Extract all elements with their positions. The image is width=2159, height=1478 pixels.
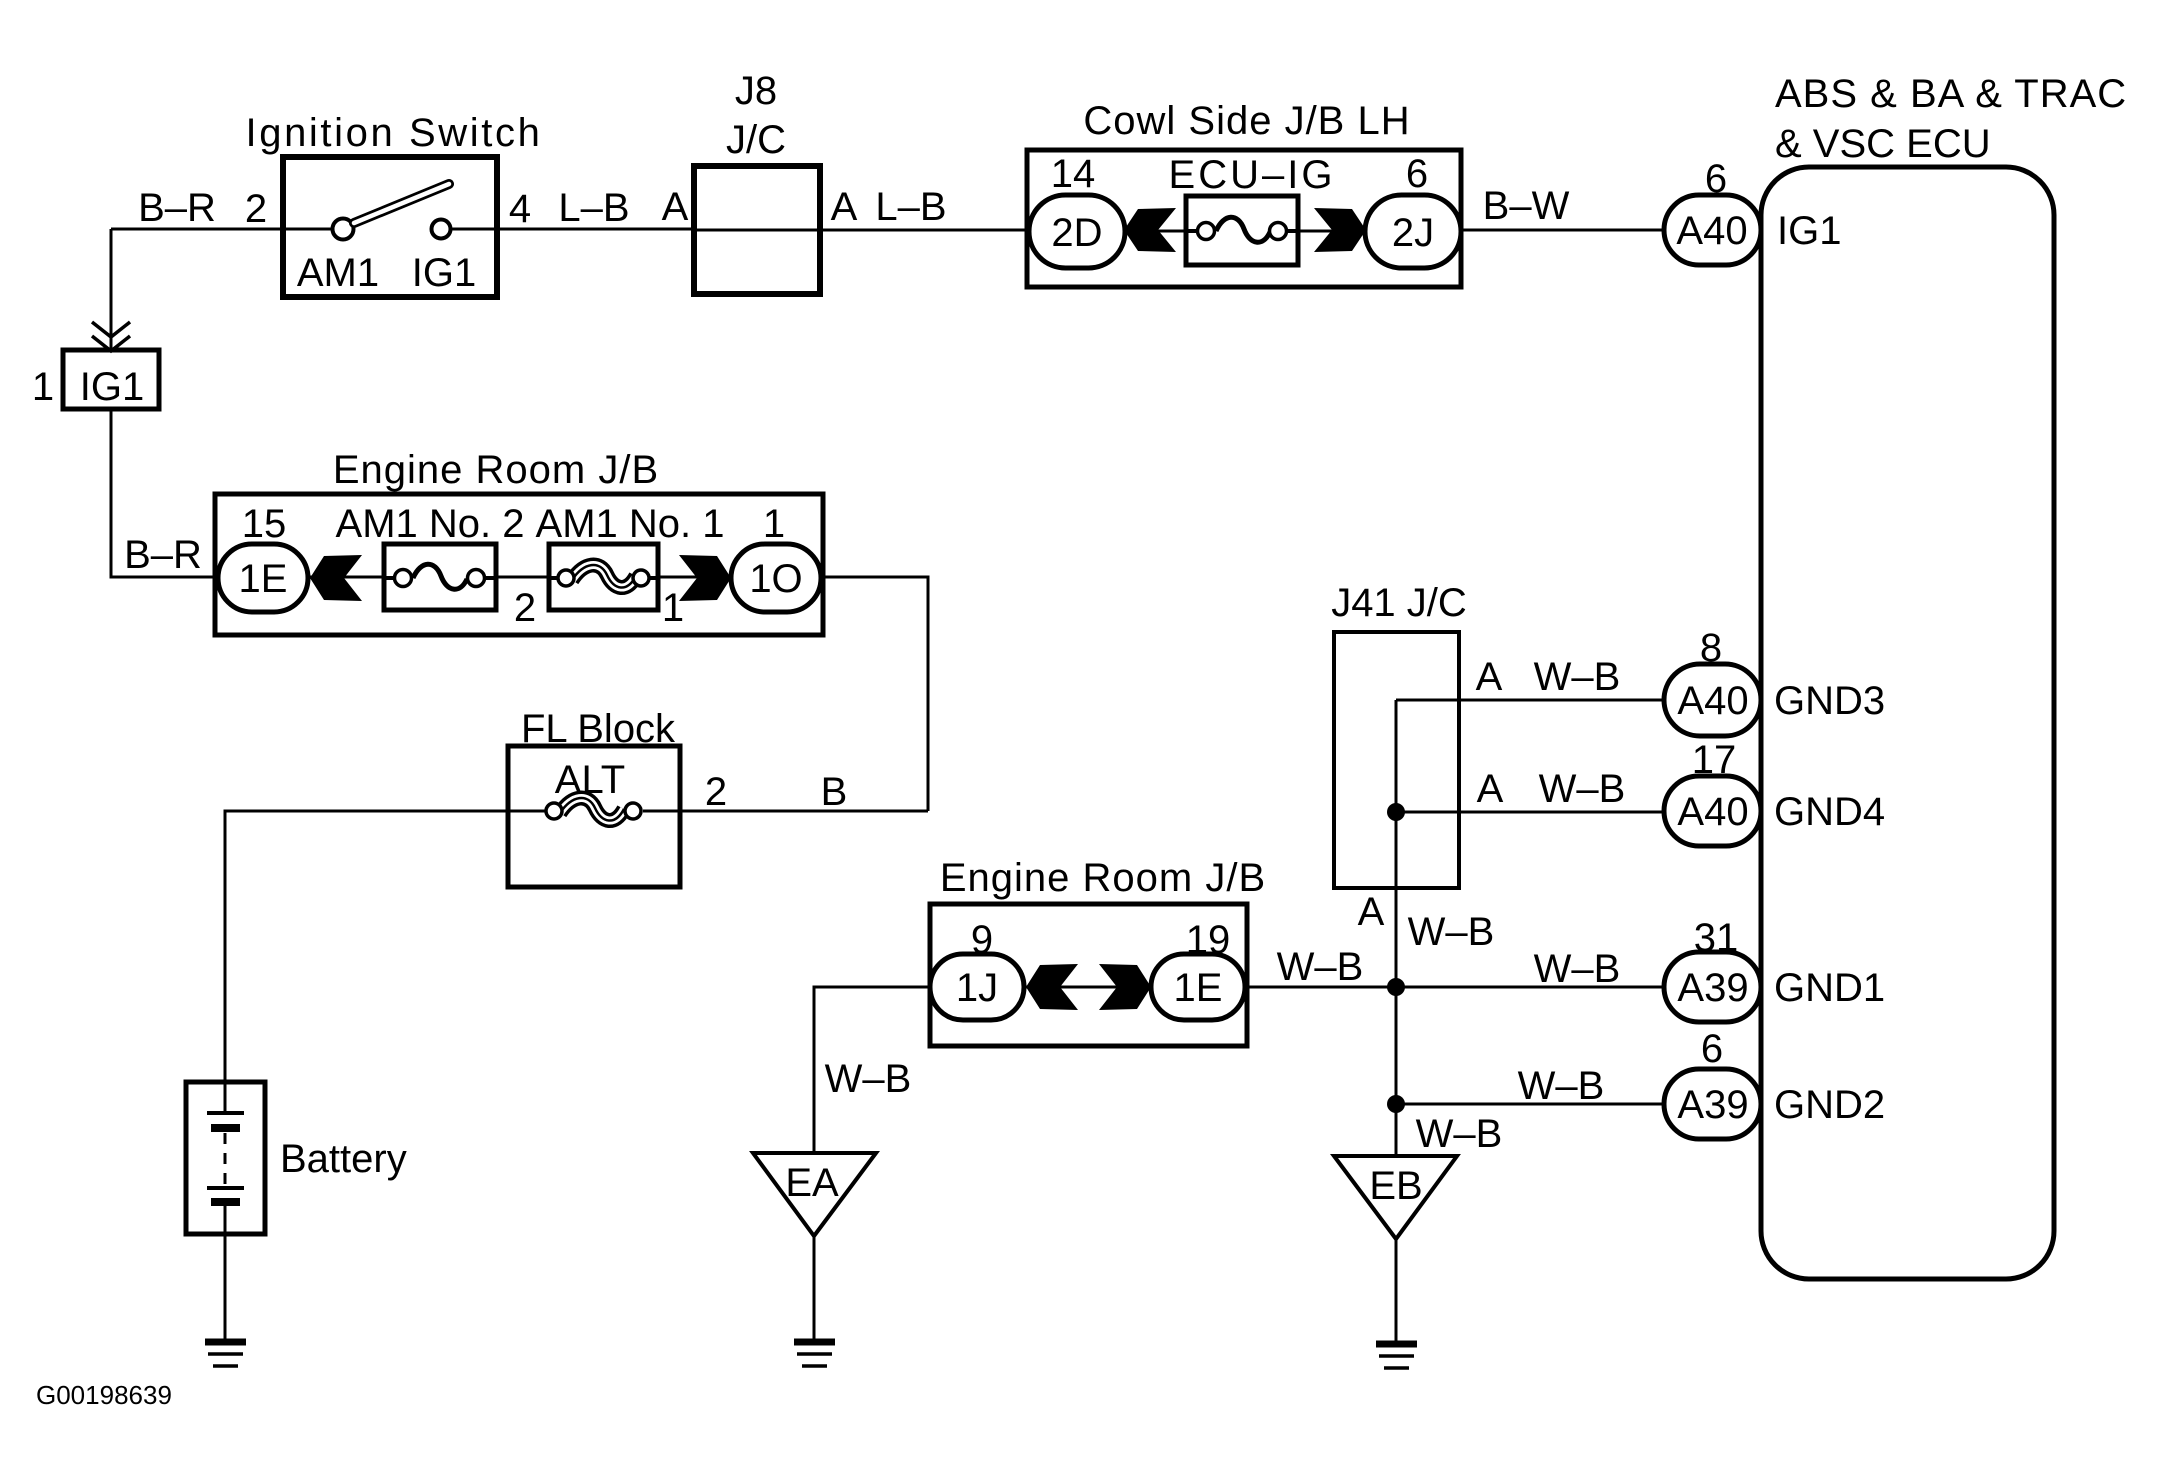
- ground triangle EA: [753, 1153, 876, 1236]
- wire B from Engine Room J/B 1O pin 1 right then down to FL block output: [818, 577, 928, 811]
- ECU box ABS & BA & TRAC & VSC ECU: [1761, 167, 2054, 1279]
- ground symbol below battery: [205, 1342, 246, 1366]
- svg-text:W–B: W–B: [1539, 767, 1626, 811]
- wire L-B pin 4 to J8 J/C left pin A: [497, 228, 695, 231]
- wire inside ignition switch from IG1 terminal to pin 4: [449, 228, 497, 231]
- connector oval A40 pin 6 IG1: [1664, 195, 1761, 265]
- svg-text:1: 1: [32, 365, 54, 409]
- svg-text:W–B: W–B: [1518, 1064, 1605, 1108]
- connector oval 2J: [1365, 195, 1461, 268]
- svg-text:A40: A40: [1677, 679, 1748, 723]
- svg-text:GND2: GND2: [1774, 1083, 1885, 1127]
- svg-text:& VSC ECU: & VSC ECU: [1775, 122, 1991, 166]
- wire inside FL block from ALT fusible link to pin 2: [643, 810, 672, 813]
- battery box: [186, 1082, 265, 1234]
- svg-text:B–R: B–R: [138, 186, 216, 230]
- svg-text:31: 31: [1694, 916, 1739, 960]
- svg-text:A39: A39: [1677, 1083, 1748, 1127]
- fuse AM1 No.2 symbol: [384, 564, 496, 589]
- svg-text:J8: J8: [735, 69, 777, 113]
- junction dot J41 J/C: [1387, 803, 1405, 821]
- ground symbol below EB: [1376, 1344, 1417, 1368]
- svg-text:8: 8: [1700, 626, 1722, 670]
- wire inside FL block to ALT fusible link: [516, 810, 545, 813]
- svg-text:14: 14: [1051, 152, 1096, 196]
- svg-text:6: 6: [1701, 1027, 1723, 1071]
- svg-text:ABS & BA & TRAC: ABS & BA & TRAC: [1775, 72, 2127, 116]
- svg-text:W–B: W–B: [1408, 910, 1495, 954]
- wire inside Engine Room J/B 2 between 1J and 1E: [1022, 986, 1153, 989]
- svg-text:W–B: W–B: [1534, 947, 1621, 991]
- wire A W-B from J41 J/C to ECU A40 pin 8 GND3: [1396, 699, 1668, 702]
- svg-text:FL Block: FL Block: [521, 707, 676, 751]
- junction connector J8 J/C box: [694, 166, 820, 294]
- svg-text:IG1: IG1: [1777, 209, 1841, 253]
- svg-text:L–B: L–B: [875, 185, 946, 229]
- svg-text:17: 17: [1692, 738, 1737, 782]
- svg-text:GND3: GND3: [1774, 679, 1885, 723]
- wire B from FL block right pin 2 to corner: [672, 810, 928, 813]
- svg-text:J/C: J/C: [726, 118, 786, 162]
- svg-text:GND4: GND4: [1774, 790, 1885, 834]
- svg-text:Engine Room J/B: Engine Room J/B: [333, 448, 659, 492]
- arrow chevron left in engine room J/B 2: [1026, 964, 1078, 1010]
- battery internal plates: [207, 1082, 244, 1234]
- svg-text:IG1: IG1: [412, 251, 476, 295]
- svg-text:L–B: L–B: [558, 186, 629, 230]
- wire inside Engine Room J/B between fuses: [490, 576, 555, 579]
- svg-text:B–R: B–R: [124, 533, 202, 577]
- svg-text:6: 6: [1705, 157, 1727, 201]
- svg-text:AM1 No. 1: AM1 No. 1: [536, 502, 725, 546]
- svg-text:ALT: ALT: [555, 758, 625, 802]
- wire through J8 J/C: [695, 229, 820, 232]
- svg-text:GND1: GND1: [1774, 966, 1885, 1010]
- junction dot GND1 wire: [1387, 978, 1405, 996]
- ignition switch IG1 terminal: [432, 220, 451, 239]
- svg-text:A: A: [831, 185, 858, 229]
- connector oval 1E pin 19: [1151, 954, 1245, 1020]
- junction dot GND2 wire: [1387, 1095, 1405, 1113]
- svg-text:1E: 1E: [239, 557, 288, 601]
- wire W-B from junction to ECU A39 pin 6 GND2: [1396, 1103, 1668, 1106]
- connector oval A40 pin 8 GND3: [1664, 664, 1761, 736]
- connector flag IG1 box: [63, 350, 159, 409]
- wire from EB apex to ground: [1395, 1239, 1398, 1344]
- engine room J/B box 1: [215, 494, 823, 635]
- fusible link ALT symbol in FL block: [546, 798, 641, 821]
- cowl side J/B LH box: [1027, 150, 1461, 287]
- svg-text:A: A: [1477, 767, 1504, 811]
- ignition switch lever: [354, 184, 449, 223]
- wire inside Engine Room J/B from 1E to AM1 No.2 fuse: [305, 576, 390, 579]
- svg-text:AM1: AM1: [297, 251, 379, 295]
- fuse ECU-IG symbol: [1186, 217, 1298, 242]
- connector oval 1J pin 9: [930, 954, 1024, 1020]
- svg-text:EA: EA: [785, 1161, 839, 1205]
- arrow chevron right in engine room J/B 1: [679, 555, 731, 601]
- svg-text:2: 2: [514, 586, 536, 630]
- FL block box: [508, 746, 680, 887]
- engine room J/B box 2: [930, 904, 1247, 1046]
- svg-text:19: 19: [1186, 918, 1231, 962]
- svg-text:W–B: W–B: [1416, 1112, 1503, 1156]
- svg-text:W–B: W–B: [1534, 655, 1621, 699]
- fuse ECU-IG box: [1186, 196, 1298, 265]
- svg-text:A40: A40: [1677, 790, 1748, 834]
- svg-text:B: B: [821, 770, 848, 814]
- connector oval A40 pin 17 GND4: [1664, 776, 1761, 846]
- fusible link AM1 No.1 box: [549, 544, 658, 610]
- svg-text:15: 15: [242, 502, 287, 546]
- svg-text:6: 6: [1406, 152, 1428, 196]
- fuse AM1 No.2 box: [384, 544, 496, 610]
- down arrow into IG1 flag: [92, 322, 130, 337]
- svg-text:9: 9: [971, 918, 993, 962]
- wire A W-B from J41 J/C junction to ECU A40 pin 17 GND4: [1396, 811, 1668, 814]
- svg-text:ECU–IG: ECU–IG: [1169, 153, 1336, 197]
- ground symbol below EA: [794, 1342, 835, 1366]
- svg-text:4: 4: [509, 187, 531, 231]
- svg-text:1E: 1E: [1174, 966, 1223, 1010]
- svg-text:W–B: W–B: [1277, 945, 1364, 989]
- connector oval 1O pin 1: [731, 544, 821, 612]
- svg-text:1O: 1O: [749, 557, 802, 601]
- svg-text:A: A: [1358, 890, 1385, 934]
- svg-text:B–W: B–W: [1483, 184, 1570, 228]
- connector oval A39 pin 31 GND1: [1664, 952, 1761, 1022]
- svg-text:G00198639: G00198639: [36, 1380, 172, 1410]
- wire from battery negative to ground: [224, 1234, 227, 1342]
- svg-text:AM1 No. 2: AM1 No. 2: [336, 502, 525, 546]
- svg-text:2: 2: [245, 187, 267, 231]
- arrow chevron right in engine room J/B 2: [1099, 964, 1151, 1010]
- wire W-B from Engine Room J/B 1J pin 9 left and down to EA: [814, 987, 932, 1153]
- wire inside Engine Room J/B from AM1 No.1 fuse to 1O: [652, 576, 735, 579]
- wire from battery positive up and right to FL block ALT: [225, 811, 516, 1082]
- svg-text:2J: 2J: [1392, 211, 1434, 255]
- connector oval 2D: [1029, 195, 1125, 268]
- svg-text:A: A: [1476, 655, 1503, 699]
- fusible link AM1 No.1 symbol: [549, 565, 658, 588]
- svg-text:1: 1: [763, 502, 785, 546]
- ignition switch AM1 terminal: [333, 219, 354, 240]
- wire vertical drop from B-R junction to connector IG1 flag: [110, 229, 113, 350]
- connector oval 1E pin 15: [218, 544, 308, 612]
- svg-text:1: 1: [662, 586, 684, 630]
- svg-text:IG1: IG1: [80, 365, 144, 409]
- ground triangle EB: [1334, 1156, 1457, 1239]
- svg-text:Engine Room J/B: Engine Room J/B: [940, 856, 1266, 900]
- svg-text:A39: A39: [1677, 966, 1748, 1010]
- arrow chevron right in cowl side J/B: [1314, 208, 1366, 252]
- arrow chevron left in cowl side J/B: [1124, 208, 1176, 252]
- svg-text:EB: EB: [1369, 1164, 1422, 1208]
- svg-text:A: A: [662, 185, 689, 229]
- wire B-R from IG1 flag down and right to Engine Room J/B 1E pin 15: [111, 408, 222, 577]
- connector oval A39 pin 6 GND2: [1664, 1069, 1761, 1139]
- wire B-W from Cowl Side J/B 2J pin 6 to ECU A40 pin 6 IG1: [1461, 229, 1668, 232]
- wire from EA apex to ground: [813, 1236, 816, 1342]
- svg-text:2D: 2D: [1051, 211, 1102, 255]
- svg-text:Cowl Side J/B LH: Cowl Side J/B LH: [1083, 99, 1410, 143]
- junction connector J41 J/C box: [1334, 632, 1459, 888]
- svg-text:A40: A40: [1676, 209, 1747, 253]
- svg-text:Battery: Battery: [280, 1137, 407, 1181]
- arrow chevron left in engine room J/B 1: [310, 555, 362, 601]
- wire W-B from Engine Room J/B 1E pin 19 to ECU A39 pin 31 GND1: [1243, 986, 1668, 989]
- svg-text:1J: 1J: [956, 966, 998, 1010]
- svg-text:W–B: W–B: [825, 1057, 912, 1101]
- wire inside Cowl Side J/B from ECU-IG fuse to 2J: [1292, 230, 1370, 233]
- svg-text:Ignition Switch: Ignition Switch: [246, 111, 543, 155]
- wire W-B vertical through J41 J/C down to EB: [1395, 700, 1398, 1156]
- svg-text:J41 J/C: J41 J/C: [1331, 581, 1467, 625]
- ignition switch box: [283, 157, 497, 297]
- wire L-B from J8 J/C right pin A to Cowl Side J/B 2D: [820, 229, 1035, 232]
- svg-text:2: 2: [705, 770, 727, 814]
- wire inside Cowl Side J/B from 2D to ECU-IG fuse: [1120, 230, 1190, 233]
- wire B-R from ignition switch AM1 pin 2 to left drop: [111, 228, 334, 231]
